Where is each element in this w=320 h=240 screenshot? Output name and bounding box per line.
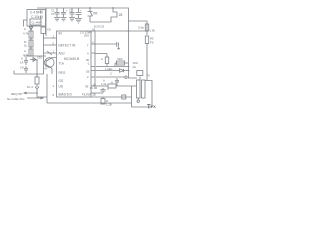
svg-text:C: C — [110, 72, 112, 76]
svg-text:IN 1B: IN 1B — [90, 86, 97, 90]
svg-text:1B: 1B — [92, 28, 95, 32]
svg-text:MC3430-B: MC3430-B — [64, 57, 79, 61]
svg-text:7B: 7B — [85, 85, 89, 89]
svg-text:C-10k: C-10k — [31, 15, 40, 19]
svg-text:RFO: RFO — [59, 71, 66, 75]
svg-text:26A: 26A — [84, 34, 89, 38]
svg-text:1.2B: 1.2B — [106, 103, 112, 107]
svg-text:8.2V DZ: 8.2V DZ — [94, 25, 105, 29]
svg-text:A: A — [101, 57, 103, 61]
svg-text:FILTER 1B: FILTER 1B — [82, 93, 96, 97]
svg-text:T5: T5 — [147, 74, 151, 78]
svg-text:90: 90 — [86, 58, 90, 62]
svg-text:1B: 1B — [119, 13, 123, 17]
svg-text:47: 47 — [51, 12, 55, 16]
svg-text:A+: A+ — [44, 67, 48, 71]
svg-text:No.cable Rm: No.cable Rm — [7, 97, 25, 101]
svg-text:VR: VR — [93, 12, 98, 16]
svg-text:CL 4MF: CL 4MF — [32, 21, 42, 25]
svg-text:BIAS-6 D: BIAS-6 D — [59, 93, 73, 97]
svg-text:4.7k: 4.7k — [23, 32, 29, 36]
svg-text:US: US — [59, 85, 63, 89]
svg-text:ADJ: ADJ — [59, 52, 65, 56]
svg-text:DETECT IN: DETECT IN — [59, 44, 76, 48]
svg-text:C-4 NF: C-4 NF — [30, 11, 40, 15]
svg-text:VD1: VD1 — [37, 56, 43, 60]
svg-text:REQ RP: REQ RP — [11, 92, 23, 96]
svg-text:TON: TON — [59, 62, 65, 66]
svg-text:1F-4: 1F-4 — [27, 85, 33, 89]
svg-text:A: A — [24, 27, 26, 31]
svg-text:1A: 1A — [20, 61, 24, 65]
svg-text:T: T — [87, 44, 89, 48]
svg-text:0.5w: 0.5w — [138, 26, 145, 30]
svg-text:1.0kΩ: 1.0kΩ — [105, 67, 112, 71]
svg-text:C: C — [107, 87, 109, 91]
svg-text:2A: 2A — [133, 65, 137, 69]
svg-text:1.0k: 1.0k — [101, 82, 107, 86]
svg-text:1B: 1B — [86, 70, 90, 74]
svg-text:A: A — [111, 81, 113, 85]
svg-text:4.7k: 4.7k — [23, 53, 29, 57]
svg-text:VD3: VD3 — [117, 57, 123, 61]
svg-text:C8: C8 — [20, 66, 24, 70]
svg-text:GS: GS — [59, 79, 64, 83]
svg-text:1.0k: 1.0k — [150, 29, 156, 33]
svg-text:-1: -1 — [87, 62, 90, 66]
svg-text:C2: C2 — [69, 9, 73, 13]
svg-text:C8: C8 — [47, 28, 51, 32]
svg-text:FS: FS — [150, 41, 154, 45]
